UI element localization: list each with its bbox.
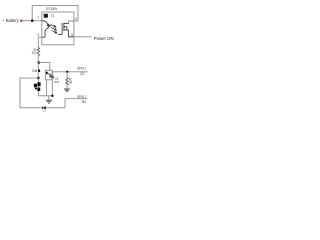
op-amp U2 box (optocoupler 2 outline) bbox=[46, 70, 53, 80]
ground 1 (center) bbox=[48, 96, 50, 100]
svg-text:Power ON: Power ON bbox=[94, 36, 114, 41]
wire U1 source to pin 3 bbox=[69, 30, 74, 37]
svg-text:2: 2 bbox=[37, 33, 39, 37]
svg-text:470: 470 bbox=[32, 51, 36, 55]
wire U1 drain to pin 4 bbox=[69, 21, 78, 24]
svg-text:4: 4 bbox=[75, 17, 77, 21]
wire node B left loop down to bottom rail bbox=[20, 78, 43, 108]
svg-text:T1: T1 bbox=[51, 14, 55, 18]
LED inside U1 (diagonal with cathode return) bbox=[42, 21, 50, 38]
wire pin 3 to Power ON bbox=[74, 36, 92, 38]
photon arrows inside U1 bbox=[51, 24, 57, 33]
svg-text:1: 1 bbox=[37, 16, 39, 20]
resistor R1 bbox=[37, 48, 40, 56]
svg-text:3: 3 bbox=[71, 33, 73, 37]
resistor R2 bbox=[66, 78, 69, 86]
wire U2 emitter down to ground wire bbox=[46, 80, 48, 96]
svg-text:D2: D2 bbox=[43, 109, 47, 113]
wire GPIO2 riser and line bbox=[65, 99, 87, 108]
wire pin 2 down to R1 bbox=[38, 37, 42, 47]
node R2 junction on GPIO1 line bbox=[66, 71, 68, 73]
switch S1 element bbox=[38, 70, 40, 73]
svg-text:GPIO 1: GPIO 1 bbox=[77, 67, 86, 71]
svg-text:CPC1392N: CPC1392N bbox=[46, 7, 57, 11]
wire R2 to ground 2 bbox=[66, 85, 68, 89]
LED D1 bbox=[37, 78, 39, 96]
svg-text:S1: S1 bbox=[32, 69, 36, 73]
diode D2 on bottom rail bbox=[43, 106, 46, 109]
wire battery to pin 1 bbox=[22, 20, 41, 22]
svg-text:.66uF: .66uF bbox=[54, 80, 59, 84]
node C4 bottom junction bbox=[51, 95, 53, 97]
wire GPIO1 line bbox=[52, 71, 87, 73]
wire node A down to switch S1 bbox=[37, 63, 39, 70]
capacitor C4 bbox=[51, 72, 53, 76]
transistor Q (MOSFET output inside U1) bbox=[58, 23, 69, 35]
transistor marks inside U2 bbox=[48, 73, 50, 75]
wire node A to U2 top bbox=[39, 63, 50, 71]
pin 1 marker square inside U2 bbox=[46, 72, 48, 74]
wire bottom rail to GPIO2 riser bbox=[46, 107, 65, 109]
wire junction to R2 bbox=[66, 72, 68, 78]
pin 1 marker square inside U1 bbox=[44, 14, 48, 18]
node red terminal dot battery bbox=[20, 20, 22, 22]
node A junction bbox=[38, 61, 41, 64]
svg-text:GPIO 2: GPIO 2 bbox=[77, 95, 87, 99]
svg-text:+ Battery: + Battery bbox=[2, 18, 19, 23]
wire R1 to node A bbox=[37, 56, 39, 63]
svg-text:OUT: OUT bbox=[80, 72, 84, 76]
op-amp U1 box (optocoupler CPC1392N outline) bbox=[42, 12, 74, 45]
ground 2 (under R2) bbox=[64, 88, 70, 90]
wire S1 to node B bbox=[37, 72, 39, 78]
svg-text:10K: 10K bbox=[69, 80, 73, 84]
wire LED bottom to C4 junction bbox=[38, 95, 52, 97]
node B junction bbox=[37, 77, 40, 80]
wire top rail from battery node to pin 4 drop bbox=[32, 6, 78, 21]
node junction battery/top-rail bbox=[31, 19, 34, 22]
